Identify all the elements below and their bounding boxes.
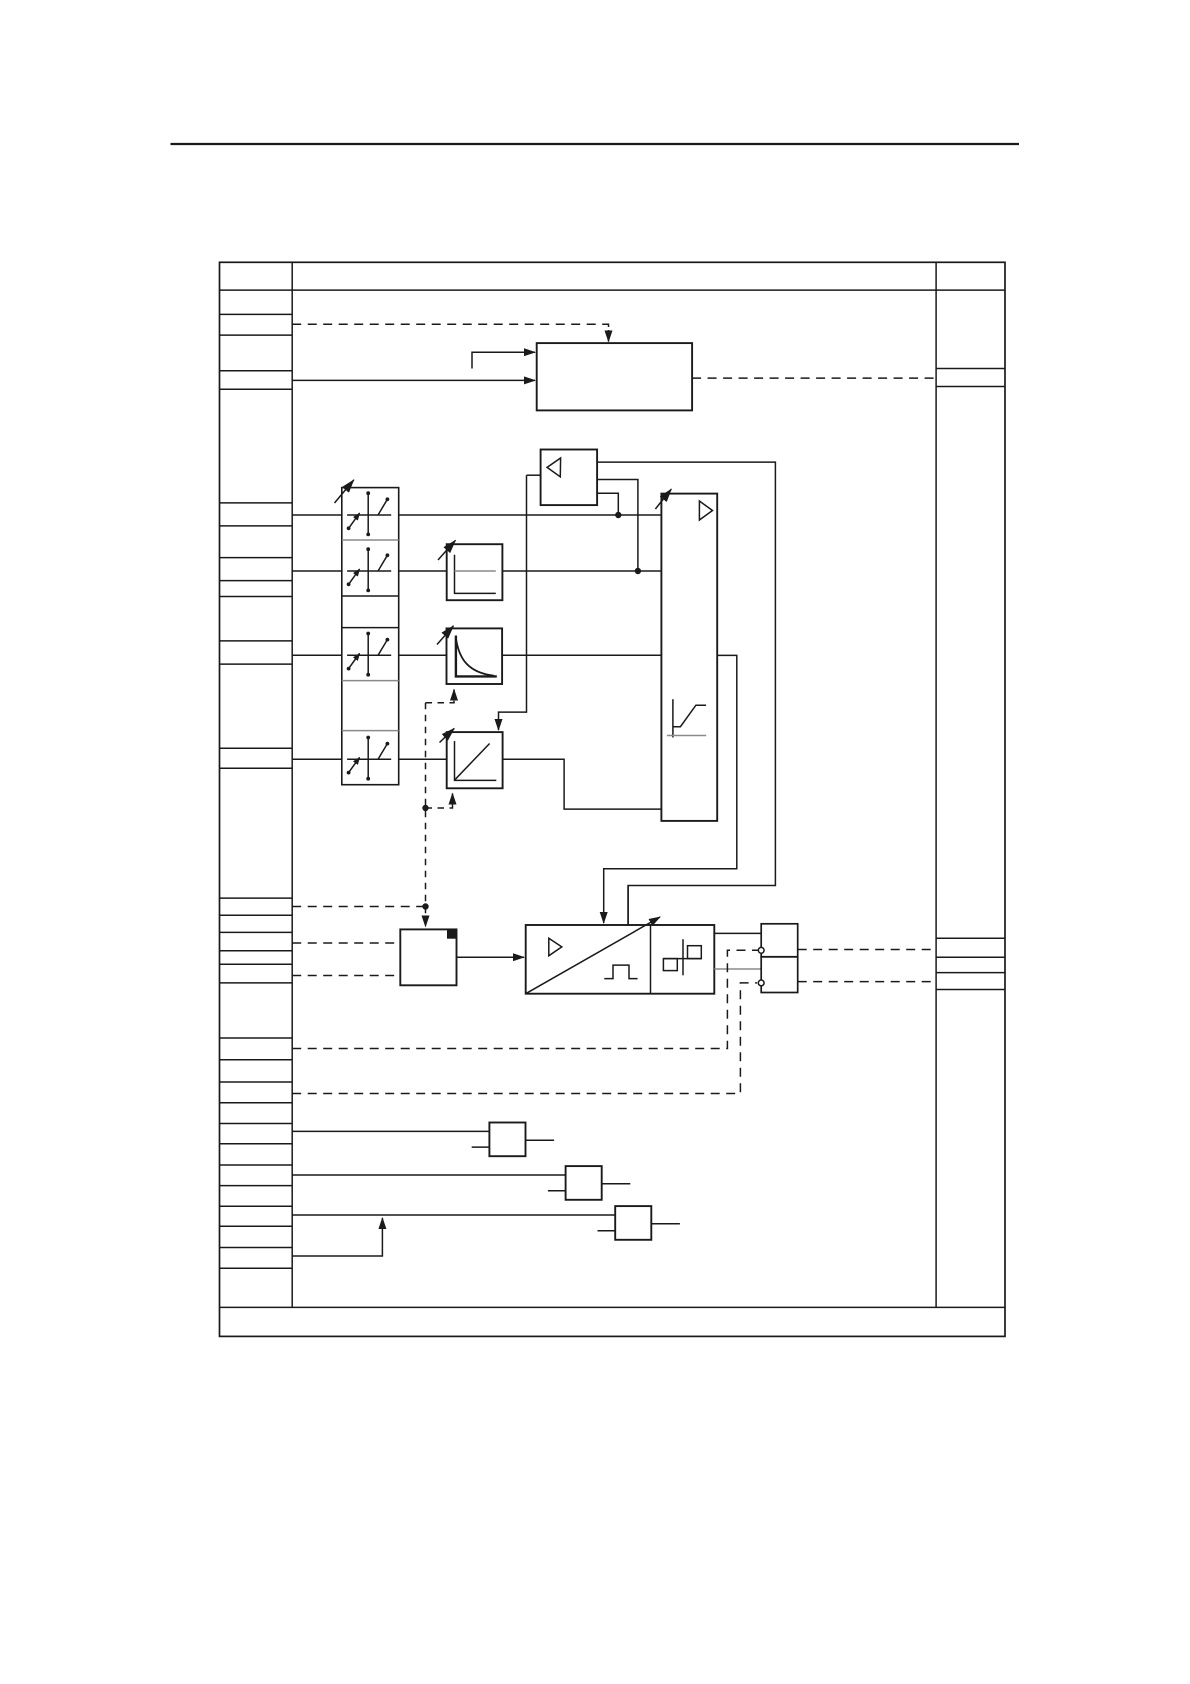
block B2 glyph axes (456, 636, 497, 677)
wire main setpoint input to block M (292, 379, 535, 381)
gain stack divider 2 (342, 595, 399, 597)
block B2 adjust arrow (437, 626, 453, 645)
ramp generator pulse glyph (604, 965, 637, 979)
tall limiter saturation glyph (667, 699, 706, 737)
switch box K2 (761, 957, 798, 993)
block B3 glyph diagonal (455, 744, 490, 780)
wire dashed input 1 to multiplier (292, 942, 400, 944)
wire row D with arrow up into row C (292, 1218, 382, 1256)
frame left column divider (291, 262, 293, 1307)
wire w3 block B2 to tall limiter block (502, 654, 661, 656)
junction dot on w2 (635, 568, 641, 574)
block B3 glyph axes (455, 741, 497, 780)
wire row B from left column (292, 1174, 565, 1176)
left terminal column cell lines (220, 314, 293, 1268)
small box B output stub (602, 1183, 631, 1185)
frame outer border (220, 262, 1006, 1336)
frame footer line (220, 1306, 1006, 1308)
right terminal column cell lines (936, 369, 1005, 990)
small box A lower stub (472, 1146, 490, 1148)
frame top band line (220, 289, 1006, 291)
block B3 adjust arrow (440, 728, 455, 742)
wire multiplier output to ramp generator (457, 956, 525, 958)
wire w3 left column to gain stack (292, 654, 342, 656)
gain stack adjust arrow (335, 480, 354, 503)
wire dashed input 2 to multiplier (292, 975, 400, 977)
small box B lower stub (548, 1190, 566, 1192)
wire ramp generator output 2 to switch box K2 (714, 968, 761, 970)
dashed control net vertical (425, 703, 427, 927)
wire w2 left column to gain stack (292, 570, 342, 572)
switch K1 control circle (758, 947, 764, 953)
junction dot on w1 (615, 512, 621, 518)
wire dashed switch K2 output to right column (798, 981, 936, 983)
wire w1 gain stack to tall limiter block (399, 514, 662, 516)
wire w4 gain stack to block B3 (399, 758, 447, 760)
wire comparator output 1 to ramp rate input (597, 462, 775, 925)
gain block stack outline (342, 488, 399, 785)
header rule (171, 143, 1020, 145)
wire row A from left column (292, 1130, 489, 1132)
ramp generator triangle symbol (549, 938, 562, 956)
gain characteristic glyph cell 1 (347, 491, 392, 536)
dashed control D2 to switch K2 (292, 983, 757, 1094)
small box C lower stub (598, 1230, 616, 1232)
wire comparator input (527, 474, 541, 476)
small box B (566, 1166, 602, 1200)
small box A output stub (526, 1139, 555, 1141)
tall limiter block (661, 494, 717, 821)
ramp generator diagonal with arrow (526, 917, 660, 994)
junction dot dashed net at B3 branch (422, 805, 428, 811)
wire tall limiter output to ramp generator top (604, 655, 737, 923)
ramp generator section divider (650, 925, 652, 994)
wire dashed switch K1 output to right column (798, 949, 936, 951)
gain characteristic glyph cell 3 (347, 632, 392, 677)
block B3 ramp characteristic (447, 732, 503, 788)
ramp function generator block (526, 925, 715, 994)
wire dashed enable input to block M top (292, 324, 608, 332)
wire w2 gain stack to block B1 (399, 570, 447, 572)
block B2 smoothing characteristic (447, 628, 503, 684)
block B1 limit characteristic (447, 544, 503, 600)
wire comparator input net down to block B3 top (499, 475, 527, 730)
gain stack divider 3 (342, 627, 399, 629)
gain characteristic glyph cell 2 (347, 547, 392, 592)
wire w1 left column to gain stack (292, 514, 342, 516)
block B1 glyph axes (455, 555, 496, 594)
multiplier corner tag filled (447, 929, 457, 938)
wire ramp generator output 1 to switch box K1 (714, 932, 761, 934)
multiplier block with corner tag (400, 929, 456, 985)
small box C output stub (651, 1223, 680, 1225)
wire dashed output block M to right column (692, 377, 936, 379)
gain stack divider 4 (342, 680, 399, 682)
frame right column divider (935, 262, 937, 1307)
block B2 glyph exponential curve (456, 640, 494, 676)
arrow dashed into block B2 bottom (426, 690, 455, 703)
gain characteristic glyph cell 4 (347, 736, 392, 781)
wire arrow into block M top (608, 330, 610, 342)
small box A (489, 1123, 525, 1157)
switch K2 control circle (758, 980, 764, 986)
gain stack divider 5 (342, 730, 399, 732)
block B1 glyph level line (455, 570, 496, 572)
wire comparator output 3 to node on wire w1 (597, 493, 618, 515)
tall limiter adjust arrow (655, 489, 671, 509)
arrow dashed into block B3 bottom (426, 794, 453, 809)
wire comparator output 2 to node on wire w2 (597, 480, 638, 572)
block B1 adjust arrow (438, 540, 455, 560)
dashed control net from left column (292, 906, 425, 908)
junction dot dashed net at column branch (422, 903, 428, 909)
wire elbow input to block M (472, 352, 535, 368)
ramp generator binary output glyph (663, 939, 701, 975)
switch box K1 (761, 924, 798, 957)
wire w2 block B1 to tall limiter block (502, 570, 661, 572)
comparator minimum-selection block (541, 450, 598, 506)
tall limiter triangle symbol (699, 501, 712, 520)
small box C (615, 1206, 651, 1240)
dashed control D1 to switch K1 (292, 950, 758, 1048)
wire w4 left column to gain stack (292, 758, 342, 760)
gain stack divider 1 (342, 539, 399, 541)
comparator triangle symbol (547, 458, 561, 477)
wire w3 gain stack to block B2 (399, 654, 447, 656)
wire rate input touch at ramp generator top (627, 886, 629, 926)
wire w4 block B3 to tall limiter block lower input (503, 759, 662, 809)
wire row C from left column (292, 1214, 615, 1216)
block M setpoint unit (537, 343, 692, 410)
